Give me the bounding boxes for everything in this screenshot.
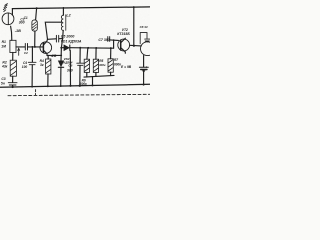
wire earphone to battery bbox=[143, 56, 145, 67]
wire top rail bbox=[12, 7, 150, 9]
capacitor C7 bbox=[108, 37, 110, 42]
wire bus to R7 bbox=[110, 48, 112, 59]
wire bus to R6 bbox=[86, 48, 89, 59]
node bus R5 bbox=[95, 47, 97, 49]
node top rail right junction bbox=[133, 6, 135, 8]
capacitor C4 branch wire bbox=[31, 47, 33, 62]
capacitor C5 bbox=[56, 35, 58, 42]
node rail C4 bbox=[31, 86, 33, 88]
wire VT2 collector to earphone node bbox=[130, 44, 142, 47]
node bus C6 bbox=[79, 47, 81, 49]
wire R1 to R2 bbox=[12, 53, 14, 61]
wire L1 box to base wire bbox=[34, 31, 36, 47]
wire C4 to bottom rail bbox=[31, 65, 33, 87]
microphone hatch marks bbox=[3, 4, 7, 12]
transistor VT2 bbox=[118, 39, 130, 51]
resistor R6 bbox=[84, 59, 89, 72]
node collector/C5 junction bbox=[62, 38, 64, 40]
wire bus B to bottom rail bbox=[92, 77, 94, 86]
diode VD1 bbox=[61, 47, 64, 49]
node rail bus B bbox=[92, 84, 94, 86]
node C4 on base wire bbox=[32, 46, 34, 48]
wire R6 to bus B bbox=[86, 72, 88, 77]
wire bottom rail bbox=[0, 84, 150, 87]
resistor R2 bbox=[10, 60, 16, 76]
wire R7 to bus B bbox=[110, 72, 112, 75]
wire C2 to VT1 base bbox=[28, 46, 43, 48]
node rail C6 bbox=[79, 85, 81, 87]
node bus R7 bbox=[110, 47, 112, 49]
wire top rail to L1 bbox=[36, 8, 37, 20]
node rail R4 bbox=[47, 85, 49, 87]
wire R5 to bus B bbox=[95, 72, 97, 76]
wire R1 to base bus bbox=[16, 46, 25, 48]
capacitor C8 loop bbox=[140, 33, 147, 44]
trimmer arrow bbox=[18, 49, 20, 56]
inductor L1 box bbox=[32, 20, 37, 31]
wire top rail down to earphone node bbox=[133, 7, 135, 46]
wire battery to bottom rail bbox=[143, 70, 145, 85]
wire C3 to bottom rail bbox=[12, 85, 14, 87]
capacitor C4 bbox=[28, 62, 36, 64]
diode VD2 bbox=[58, 61, 63, 67]
inductor L2 bbox=[61, 15, 63, 30]
capacitor C6 bbox=[77, 63, 84, 65]
dashed stub bbox=[35, 90, 37, 95]
node battery rail bbox=[143, 84, 145, 86]
node rail C3 bbox=[12, 86, 14, 88]
wire bus to C6 bbox=[79, 48, 81, 63]
resistor R4 bbox=[46, 59, 51, 74]
wire bus to R5 bbox=[95, 48, 97, 59]
wire C6 to bottom rail bbox=[79, 66, 81, 86]
node junction of L1 branch on base wire bbox=[34, 46, 36, 48]
wire mid vertical from rail bbox=[62, 8, 64, 15]
paper grain bbox=[0, 0, 150, 100]
resistor R1 bbox=[10, 40, 16, 52]
node diode junction bbox=[60, 47, 62, 49]
wire microphone to R1 bbox=[11, 26, 12, 40]
node rail VD2 bbox=[60, 85, 62, 87]
node top rail junction bbox=[36, 7, 38, 9]
wire C7 to VT2 base bbox=[110, 39, 118, 42]
wire L2 to diode node bbox=[61, 30, 63, 60]
wire VD1 cathode to bottom rail bbox=[69, 51, 71, 86]
battery GB1 bbox=[139, 66, 148, 68]
battery polarity mark bbox=[142, 70, 146, 72]
wire mid bus bbox=[70, 47, 113, 50]
wire R2 to C3 bbox=[12, 76, 14, 82]
dashed enclosure line bbox=[8, 94, 150, 95]
node base/bus riser bbox=[113, 39, 115, 41]
L2 core line bbox=[65, 15, 67, 31]
capacitor C3 bbox=[8, 83, 17, 85]
capacitor C2 bbox=[25, 44, 27, 51]
microphone BM1 bbox=[2, 13, 14, 25]
node bus R6 bbox=[87, 47, 89, 49]
wire feedback tap L2 to collector bbox=[45, 22, 62, 39]
wire bus B bbox=[84, 75, 114, 77]
wire VT1 emitter to mid node bbox=[47, 54, 61, 56]
wire VD2 to bottom rail bbox=[60, 68, 62, 87]
node emitter junction bbox=[60, 55, 62, 57]
wire VT1 collector to C5 bbox=[48, 38, 57, 41]
wire left corner from rail down to microphone bbox=[11, 9, 13, 15]
wire R4 top to emitter wire bbox=[47, 55, 49, 59]
wire R4 to bottom rail bbox=[47, 74, 49, 86]
resistor R5 bbox=[93, 59, 98, 72]
node earphone junction bbox=[133, 45, 135, 47]
earphone BF1 bbox=[141, 42, 155, 56]
wire C5 to mid vertical bbox=[59, 38, 62, 40]
transistor VT1 bbox=[40, 42, 52, 54]
resistor R7 bbox=[108, 59, 113, 72]
wire base wire to bus bbox=[113, 40, 115, 48]
node top rail L2 junction bbox=[63, 7, 65, 9]
node rail VD1 branch bbox=[69, 85, 71, 87]
